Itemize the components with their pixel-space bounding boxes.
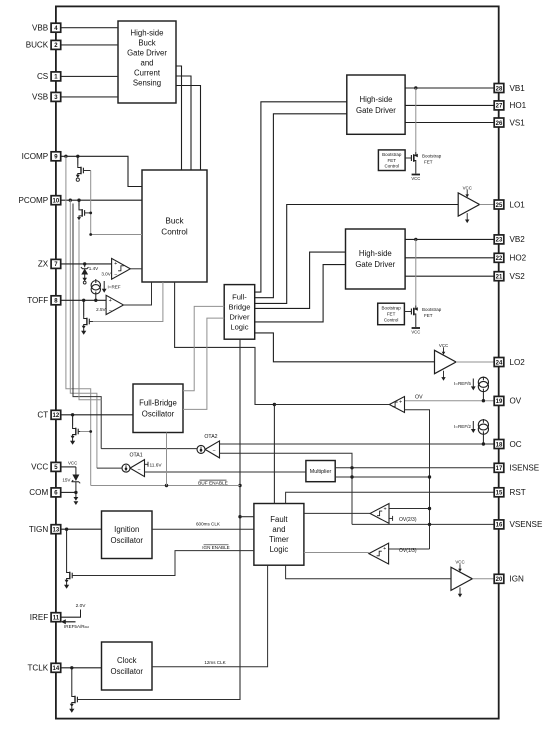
node rail429 junction <box>428 475 431 478</box>
node bootstrap1 junction <box>414 86 417 89</box>
svg-text:Gate Driver: Gate Driver <box>356 106 396 115</box>
svg-text:11: 11 <box>53 616 60 622</box>
comparator ZX zero-cross <box>112 258 131 279</box>
diode zener 15V <box>72 467 81 493</box>
pin 24 LO2 <box>494 358 525 367</box>
wire OV(1/3) input to rail end <box>389 548 430 550</box>
svg-text:Bootstrap: Bootstrap <box>382 152 402 157</box>
wire CT fet gate to rail <box>80 431 91 433</box>
svg-text:OTA1: OTA1 <box>129 453 142 459</box>
svg-text:FET: FET <box>388 158 397 163</box>
wire OTA2 lower input to rail 352 <box>219 453 352 524</box>
comparator OV(2/3) <box>370 504 389 524</box>
pin 21 VS2 <box>494 272 525 281</box>
svg-text:21: 21 <box>496 274 503 280</box>
arrow IREF current out <box>61 619 76 624</box>
wire FBDL bottom rail down to TCLK fet gate <box>77 339 240 699</box>
svg-text:IREF: IREF <box>30 613 48 622</box>
svg-text:VCC: VCC <box>68 460 77 465</box>
wire bootstrap FET 1 drain <box>415 88 417 152</box>
wire bootstrap FET 2 drain <box>415 239 417 305</box>
wire OV comparator plus input to rail <box>405 410 430 549</box>
svg-text:+: + <box>399 399 402 405</box>
node TCLK junction <box>70 666 73 669</box>
pin 22 HO2 <box>494 253 526 262</box>
svg-text:12ms CLK: 12ms CLK <box>204 660 225 665</box>
svg-text:FET: FET <box>387 312 396 317</box>
power VCC bootstrap1 <box>411 175 420 182</box>
arrow IREF direction <box>102 281 107 293</box>
svg-text:+: + <box>109 298 112 304</box>
wire IGN output <box>472 578 494 580</box>
wire RST pin into Fault top <box>286 492 495 503</box>
svg-text:VCC: VCC <box>439 343 448 348</box>
wire OV(2/3) output to Fault right <box>304 512 370 514</box>
svg-text:Bridge: Bridge <box>228 303 250 312</box>
svg-text:17: 17 <box>496 466 503 472</box>
wire Multiplier lower output to rail 429 <box>335 476 429 478</box>
svg-text:Control: Control <box>385 164 400 169</box>
wire CS pin to buck gate driver <box>61 75 118 77</box>
wire CT pin to Full-Bridge Oscillator <box>61 414 133 416</box>
node gate junction PCOMP fet <box>89 212 92 215</box>
op-amp OTA2 <box>197 434 220 458</box>
wire FBDL to LO2 buffer <box>255 333 435 362</box>
block: High-side Gate Driver 1 <box>347 75 405 134</box>
svg-text:CT: CT <box>37 411 48 420</box>
wire VB1 <box>405 87 494 89</box>
block: Bootstrap FET Control 2 <box>378 303 405 325</box>
block: Clock Oscillator <box>102 642 153 690</box>
svg-text:15: 15 <box>496 491 503 497</box>
wire TOFF pin to comparator <box>61 299 106 301</box>
svg-text:20: 20 <box>496 577 503 583</box>
block: Buck Control <box>142 170 207 282</box>
svg-text:IGN: IGN <box>510 575 525 584</box>
wire rail tap into Fault left <box>240 516 254 518</box>
block: Full-Bridge Driver Logic <box>224 285 255 340</box>
block: Multiplier <box>306 461 335 482</box>
svg-text:VCC: VCC <box>455 560 464 565</box>
svg-text:LO2: LO2 <box>510 358 526 367</box>
svg-text:IGN ENABLE: IGN ENABLE <box>202 545 229 550</box>
wire OC line from OTA2 to OC pin <box>219 443 494 445</box>
wire Ignition Oscillator output to Fault <box>152 528 254 530</box>
svg-text:Gate Driver: Gate Driver <box>127 49 167 58</box>
svg-text:OV(2/3): OV(2/3) <box>399 517 417 523</box>
comparator TOFF <box>106 295 123 314</box>
svg-text:TOFF: TOFF <box>27 296 48 305</box>
wire rail from PCOMP fet source down staircase <box>79 221 101 400</box>
wire OV comparator output to fault feeder junction <box>274 404 389 406</box>
svg-text:and: and <box>140 59 153 68</box>
svg-text:OC: OC <box>510 440 522 449</box>
wire Full-Bridge Driver Logic left to oscillator right 2 <box>183 318 224 409</box>
svg-text:+: + <box>383 506 386 512</box>
node ICOMP rail junction <box>64 155 67 158</box>
svg-text:Driver: Driver <box>229 313 250 322</box>
svg-text:ICOMP: ICOMP <box>22 152 49 161</box>
block: Bootstrap FET Control 1 <box>378 150 405 171</box>
svg-text:BUCK: BUCK <box>26 41 49 50</box>
wire oscillator bottom rail <box>166 433 168 486</box>
pin 2 BUCK <box>26 40 61 49</box>
pin 18 OC <box>494 440 522 449</box>
power VCC bootstrap2 <box>411 328 420 334</box>
svg-text:Oscillator: Oscillator <box>111 536 144 545</box>
wire TIGN pin to Ignition Oscillator <box>61 528 102 530</box>
wire IREF pin <box>61 616 81 618</box>
svg-text:2.5V: 2.5V <box>96 307 106 312</box>
node TIGN junction <box>65 528 68 531</box>
svg-text:BUF ENABLE: BUF ENABLE <box>198 481 228 487</box>
svg-text:Buck: Buck <box>165 216 184 225</box>
transistor ICOMP clamp FET <box>77 156 79 164</box>
svg-text:−: − <box>114 273 117 279</box>
svg-text:−: − <box>213 449 216 455</box>
pin 9 ICOMP <box>22 152 61 161</box>
svg-text:26: 26 <box>496 121 503 127</box>
svg-text:Timer: Timer <box>269 535 289 544</box>
pin 8 TOFF <box>27 296 60 305</box>
node CT junction <box>71 413 74 416</box>
node CT gate rail junction <box>89 430 92 433</box>
wire COM pin <box>61 491 76 493</box>
svg-text:Ignition: Ignition <box>114 525 139 534</box>
node OV current source junction <box>482 399 485 402</box>
wire OV(2/3) input to rail <box>389 508 430 510</box>
wire VCC pin <box>61 466 76 468</box>
svg-text:OV(1/3): OV(1/3) <box>399 548 417 554</box>
svg-text:24: 24 <box>496 360 503 366</box>
svg-text:CS: CS <box>37 72 49 81</box>
wire FBDL to gate driver 1 input a <box>255 102 347 292</box>
pin 25 LO1 <box>494 200 525 209</box>
pin 23 VB2 <box>494 235 525 244</box>
svg-text:I=REF/5: I=REF/5 <box>454 381 471 386</box>
svg-text:VCC: VCC <box>411 329 420 334</box>
svg-text:−: − <box>109 308 112 314</box>
svg-text:Full-: Full- <box>232 293 247 302</box>
arrow IREF/5 direction <box>471 379 476 391</box>
wire VB2 <box>405 238 494 240</box>
svg-text:Full-Bridge: Full-Bridge <box>139 398 177 407</box>
wire Multiplier to ISENSE pin <box>335 467 494 469</box>
svg-text:Logic: Logic <box>270 545 289 554</box>
svg-text:I=REF/2: I=REF/2 <box>454 424 471 429</box>
pin 6 COM <box>29 488 60 497</box>
wire TIGN fet gate to IGN ENABLE into Fault <box>75 551 254 576</box>
wire LO2 output <box>456 361 494 363</box>
IC outline border <box>56 6 499 718</box>
wire ZX pin to comparator <box>61 263 112 265</box>
svg-text:14: 14 <box>53 666 60 672</box>
pin 13 TIGN <box>29 525 61 534</box>
svg-text:+: + <box>114 261 117 267</box>
svg-text:and: and <box>272 525 285 534</box>
svg-text:VCC: VCC <box>31 463 48 472</box>
svg-text:12: 12 <box>53 413 60 419</box>
svg-text:VS1: VS1 <box>510 118 526 127</box>
wire ICOMP pin with jog into Buck Control <box>61 156 142 186</box>
node TOFF fet junction <box>82 299 85 302</box>
pin 28 VB1 <box>494 84 525 93</box>
svg-text:Multiplier: Multiplier <box>310 469 332 475</box>
svg-text:Logic: Logic <box>230 323 248 332</box>
pin 5 VCC <box>31 462 61 471</box>
svg-text:ISENSE: ISENSE <box>510 464 540 473</box>
svg-text:I=REF: I=REF <box>108 284 121 289</box>
node vsense rail429 junction <box>428 523 431 526</box>
svg-text:ZX: ZX <box>38 260 49 269</box>
wires buck gate driver outputs down to Buck Control <box>176 66 182 170</box>
wire FBDL to gate driver 2 input a <box>255 252 346 308</box>
wire OTA2 output left and up <box>101 448 197 450</box>
pin 1 CS <box>37 72 61 81</box>
node rail429 ov23 junction <box>428 507 431 510</box>
diode ZX clamp 1.4V <box>81 264 89 284</box>
wire OV pin line <box>405 400 495 402</box>
svg-text:19: 19 <box>496 399 503 405</box>
block: High-side Buck Gate Driver and Current Sensing <box>118 21 176 103</box>
svg-text:27: 27 <box>496 104 503 110</box>
buffer LO1 driver <box>458 185 479 223</box>
pin 11 IREF <box>30 613 61 622</box>
wire OTA1 output left <box>97 467 122 469</box>
svg-text:COM: COM <box>29 488 48 497</box>
svg-text:3.0V: 3.0V <box>101 271 111 276</box>
wire FBDL to LO1 buffer <box>255 205 459 304</box>
svg-text:10: 10 <box>53 198 60 204</box>
wire ZX comparator output to Buck Control <box>130 268 142 270</box>
svg-text:13: 13 <box>53 527 60 533</box>
node PCOMP mosfet drain junction <box>77 199 80 202</box>
wire FBDL to gate driver 1 input b <box>255 114 347 298</box>
svg-text:High-side: High-side <box>359 249 392 258</box>
wire VS1 <box>405 122 494 124</box>
node fault logic tap junction <box>238 515 241 518</box>
svg-text:+: + <box>383 546 386 552</box>
svg-text:TIGN: TIGN <box>29 525 48 534</box>
wire VBB pin to buck gate driver <box>61 27 118 29</box>
svg-text:Oscillator: Oscillator <box>111 667 144 676</box>
wire BUCK pin to buck gate driver <box>61 44 118 46</box>
current source IREF (ZX/TOFF) <box>91 281 100 294</box>
transistor bootstrap FET 1 <box>411 152 417 164</box>
pin 20 IGN <box>494 574 524 583</box>
svg-text:HO1: HO1 <box>510 101 527 110</box>
current source IREF/5 on OV <box>478 377 488 391</box>
svg-text:Bootstrap: Bootstrap <box>422 307 442 312</box>
pin 12 CT <box>37 410 60 419</box>
wire VSENSE line <box>352 523 494 525</box>
wire HO2 <box>405 257 494 259</box>
pin 16 VSENSE <box>494 520 543 529</box>
wire VSB pin to buck gate driver <box>61 96 118 98</box>
wire black rail down staircase to OTA2 output corner <box>73 204 101 449</box>
wire TOFF comparator output up into Buck Control <box>123 282 151 305</box>
svg-text:OV: OV <box>415 394 423 400</box>
svg-text:HO2: HO2 <box>510 254 527 263</box>
transistor CT discharge FET <box>72 415 74 426</box>
svg-text:PCOMP: PCOMP <box>19 196 49 205</box>
svg-text:VBB: VBB <box>32 24 48 33</box>
pin 27 HO1 <box>494 101 526 110</box>
pin 7 ZX <box>38 259 61 268</box>
svg-text:VSB: VSB <box>32 93 48 102</box>
block: Full-Bridge Oscillator <box>133 384 183 433</box>
block: High-side Gate Driver 2 <box>346 229 406 289</box>
node COM junction <box>74 491 77 494</box>
wire HO1 <box>405 104 494 106</box>
svg-text:High-side: High-side <box>131 29 164 38</box>
wire OV(1/3) output to Fault right <box>304 552 369 554</box>
svg-text:18: 18 <box>496 442 503 448</box>
node bootstrap2 junction <box>414 238 417 241</box>
buffer IGN driver <box>451 560 472 598</box>
svg-text:Fault: Fault <box>270 515 288 524</box>
wire Clock Oscillator output to Fault bottom <box>152 565 268 667</box>
label 2.0V reference <box>80 610 82 618</box>
svg-text:RST: RST <box>510 488 526 497</box>
svg-text:VB1: VB1 <box>510 84 526 93</box>
svg-text:Oscillator: Oscillator <box>142 409 175 418</box>
node TOFF iref junction <box>94 299 97 302</box>
label 11.6V with tick <box>145 463 149 465</box>
transistor bootstrap FET 2 <box>411 306 417 318</box>
arrow IREF/2 direction <box>471 421 476 433</box>
buffer LO2 driver <box>435 343 457 381</box>
wire BUF ENABLE line <box>91 485 240 487</box>
svg-text:Bootstrap: Bootstrap <box>381 306 401 311</box>
node osc bottom rail junction <box>165 484 168 487</box>
pin 19 OV <box>494 396 522 405</box>
svg-text:11.6V: 11.6V <box>149 463 162 469</box>
pin 17 ISENSE <box>494 463 540 472</box>
node BUF ENABLE junction <box>238 484 241 487</box>
pin 4 VBB <box>32 23 61 32</box>
svg-text:TCLK: TCLK <box>27 664 48 673</box>
node y234 corner <box>89 233 92 236</box>
svg-text:Sensing: Sensing <box>133 79 161 88</box>
block: Ignition Oscillator <box>102 511 153 559</box>
wire TCLK pin to Clock Oscillator <box>61 667 102 669</box>
svg-text:VSENSE: VSENSE <box>510 520 543 529</box>
svg-text:Control: Control <box>384 317 399 322</box>
wire LO1 output <box>480 204 495 206</box>
node rail352 junction <box>350 475 353 478</box>
arrow COM substrate <box>74 492 79 505</box>
svg-text:23: 23 <box>496 238 503 244</box>
block: Fault and Timer Logic <box>254 504 304 566</box>
svg-text:Gate Driver: Gate Driver <box>355 260 395 269</box>
transistor TOFF pulldown FET <box>83 300 85 315</box>
pin 26 VS1 <box>494 118 525 127</box>
svg-text:1.4V: 1.4V <box>89 266 99 271</box>
wire Buck Control bottom to TOFF fet gate <box>93 282 163 322</box>
svg-text:FET: FET <box>424 313 433 318</box>
svg-text:16: 16 <box>496 523 503 529</box>
node rail352 isense junction <box>350 466 353 469</box>
wire rail from ICOMP down with staircase to BUF area <box>66 156 91 485</box>
pin 3 VSB <box>32 92 61 101</box>
node PCOMP rail junction <box>69 199 72 202</box>
svg-text:Buck: Buck <box>138 39 155 48</box>
svg-text:FET: FET <box>424 159 433 164</box>
svg-text:600ms CLK: 600ms CLK <box>196 522 220 527</box>
svg-text:15V: 15V <box>62 477 71 482</box>
svg-text:OTA2: OTA2 <box>204 434 217 440</box>
svg-text:Bootstrap: Bootstrap <box>422 154 442 159</box>
svg-text:25: 25 <box>496 203 503 209</box>
node OV comparator output junction <box>273 403 276 406</box>
wire OTA1 lower input long line to Multiplier <box>145 471 306 473</box>
node ZX diode junction <box>83 262 86 265</box>
wire Full-Bridge Driver Logic left to oscillator right 1 <box>183 306 224 390</box>
svg-text:Control: Control <box>161 227 188 236</box>
node ICOMP mosfet drain junction <box>76 155 79 158</box>
svg-text:2.0V: 2.0V <box>76 603 87 609</box>
svg-text:VCC: VCC <box>463 185 472 190</box>
transistor TIGN FET <box>66 529 68 569</box>
pin 15 RST <box>494 488 526 497</box>
node OC current source junction <box>482 442 485 445</box>
transistor PCOMP clamp FET <box>78 200 80 207</box>
current source IREF/2 on OC <box>478 420 488 434</box>
svg-text:VCC: VCC <box>411 176 420 181</box>
comparator OV(1/3) <box>369 543 389 564</box>
svg-text:OV: OV <box>510 397 522 406</box>
wire Fault logic to IGN buffer <box>286 565 451 579</box>
transistor TCLK FET <box>71 668 73 694</box>
svg-text:Clock: Clock <box>117 656 137 665</box>
svg-text:−: − <box>137 467 140 473</box>
comparator OV <box>389 397 404 413</box>
wire rail from PCOMP down staircase to OTA1 output corner <box>70 200 97 468</box>
wire FBDL to gate driver 2 input b <box>255 265 346 322</box>
svg-text:Current: Current <box>134 69 161 78</box>
label OV(2/3) ref tick <box>389 517 393 519</box>
svg-text:28: 28 <box>496 86 503 92</box>
pin 14 TCLK <box>27 663 60 672</box>
wire VS2 <box>405 275 494 277</box>
op-amp OTA1 <box>122 453 145 477</box>
pin 10 PCOMP <box>19 196 61 205</box>
svg-text:High-side: High-side <box>359 95 392 104</box>
wire gate rail x90.7 down to wire y234 into Buck Control <box>91 171 142 235</box>
svg-text:LO1: LO1 <box>510 200 526 209</box>
wire PCOMP pin to Buck Control <box>61 199 142 201</box>
svg-text:VS2: VS2 <box>510 272 526 281</box>
svg-text:22: 22 <box>496 256 503 262</box>
wire Buck Control bottom down right down to Fault and Timer Logic top <box>175 282 275 504</box>
svg-text:VB2: VB2 <box>510 235 526 244</box>
